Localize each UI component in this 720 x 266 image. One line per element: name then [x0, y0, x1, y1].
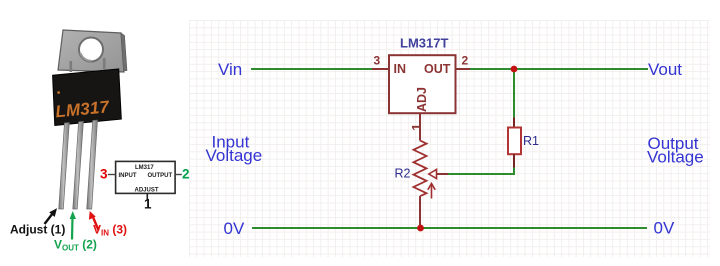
pin 3 stub of U1	[372, 54, 389, 70]
arrow to Adjust pin	[45, 208, 58, 224]
R1 bottom lead	[513, 154, 515, 167]
R2 bottom lead	[419, 196, 421, 228]
svg-text:Voltage: Voltage	[206, 146, 263, 165]
svg-text:2: 2	[462, 54, 469, 68]
svg-text:INPUT: INPUT	[119, 173, 137, 179]
svg-text:VOUT (2): VOUT (2)	[54, 238, 97, 253]
LM317 body marking	[53, 86, 111, 121]
wire regulator output to Vout	[470, 68, 648, 70]
pin 2 stub of U1	[456, 54, 471, 70]
R1 top lead	[513, 118, 515, 129]
svg-text:3: 3	[374, 54, 381, 68]
svg-text:LM317: LM317	[135, 165, 154, 171]
svg-text:Vout: Vout	[648, 60, 682, 79]
pinout diagram box	[116, 161, 176, 193]
svg-text:ADJ: ADJ	[415, 87, 429, 112]
TO-220 leg 3	[87, 120, 98, 209]
label Output Voltage	[647, 134, 704, 167]
svg-text:LM317T: LM317T	[400, 36, 448, 51]
svg-text:R1: R1	[523, 134, 539, 148]
TO-220 metal tab	[58, 30, 127, 72]
pinout pin 1 lead	[144, 193, 152, 211]
junction dot at 0V rail	[417, 225, 424, 232]
TO-220 leg 1	[59, 123, 70, 209]
arrow to VIN pin	[89, 211, 99, 231]
svg-text:Vin: Vin	[218, 60, 242, 79]
svg-text:Voltage: Voltage	[647, 148, 704, 167]
svg-text:0V: 0V	[224, 219, 245, 238]
pinout pin 2 lead	[175, 167, 189, 182]
svg-text:1: 1	[144, 197, 152, 212]
svg-text:3: 3	[100, 167, 108, 182]
junction dot at output node	[511, 66, 518, 73]
tab notch marks	[70, 58, 106, 72]
TO-220 leg 2	[73, 121, 84, 209]
regulator U1 LM317T	[389, 55, 456, 113]
TO-220 black plastic body	[53, 69, 122, 126]
arrow to VOUT pin	[70, 211, 76, 240]
wire Vin to regulator input	[251, 68, 372, 70]
svg-text:IN: IN	[394, 62, 407, 76]
potentiometer R2	[414, 141, 437, 199]
R2 wiper lead	[437, 173, 449, 175]
label Input Voltage	[206, 133, 263, 165]
svg-text:R2: R2	[395, 167, 411, 181]
pinout pin 3 lead	[100, 167, 116, 182]
svg-text:Adjust (1): Adjust (1)	[10, 223, 65, 237]
resistor R1	[508, 128, 539, 155]
wire output node down to R1	[513, 69, 515, 118]
svg-text:1: 1	[409, 124, 424, 131]
svg-text:2: 2	[182, 167, 190, 182]
svg-text:ADJUST: ADJUST	[135, 187, 159, 193]
wire R1 bottom to R2 wiper	[448, 168, 514, 175]
svg-text:OUTPUT: OUTPUT	[148, 173, 173, 179]
pin 1 stub of U1 (ADJ)	[409, 113, 424, 141]
0V rail wire	[252, 227, 647, 229]
TO-220 tab mounting hole	[79, 38, 103, 62]
svg-text:OUT: OUT	[424, 62, 451, 76]
svg-text:VIN (3): VIN (3)	[93, 223, 127, 238]
svg-text:0V: 0V	[654, 219, 675, 238]
